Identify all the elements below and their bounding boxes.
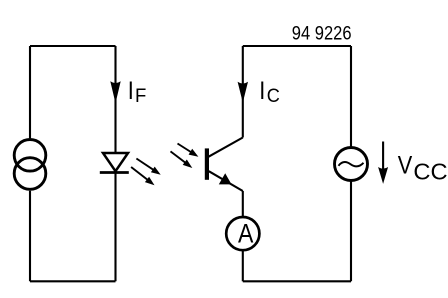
svg-text:94 9226: 94 9226 [292,23,352,44]
svg-text:I: I [259,77,265,105]
svg-text:I: I [128,77,134,105]
svg-text:A: A [238,220,254,249]
svg-text:C: C [267,84,280,106]
svg-text:V: V [398,151,413,179]
svg-text:F: F [135,86,146,108]
svg-text:CC: CC [413,159,447,185]
